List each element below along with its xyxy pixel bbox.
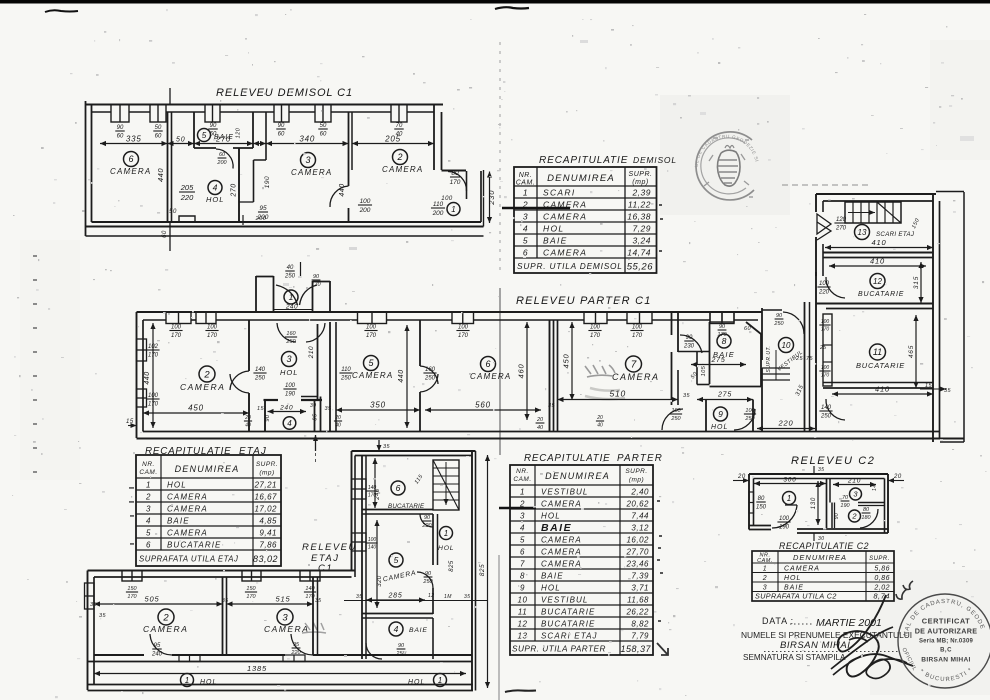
data dotted line [790, 623, 814, 625]
svg-text:90: 90 [776, 313, 783, 319]
svg-text:130: 130 [811, 497, 817, 509]
svg-text:26,22: 26,22 [625, 608, 649, 617]
svg-text:170: 170 [127, 594, 137, 600]
svg-text:315: 315 [913, 276, 920, 289]
svg-text:CAMERA: CAMERA [167, 493, 208, 502]
svg-text:4,85: 4,85 [259, 517, 277, 526]
svg-text:250: 250 [422, 579, 433, 585]
signature check mark upper [896, 589, 907, 599]
svg-text:DEMISOL: DEMISOL [633, 155, 677, 165]
svg-text:3: 3 [282, 612, 288, 623]
parter vestibule 10 left wall [761, 308, 763, 360]
parter room 5 left wall [329, 322, 331, 432]
parter dim 440 vertical partition 5-6 [406, 325, 408, 428]
svg-text:250: 250 [340, 376, 352, 382]
parter vestibule inner door arcs [277, 323, 296, 342]
svg-text:HOL: HOL [206, 195, 224, 204]
svg-text:SCARI ETAJ: SCARI ETAJ [876, 231, 915, 238]
c2 room 2 door arc [860, 509, 878, 528]
svg-text:220: 220 [180, 193, 194, 202]
c2 room 3 circled number [850, 488, 862, 500]
svg-text:1: 1 [763, 566, 767, 573]
demisol wing right wall [466, 171, 468, 199]
parter vestibule dim 240 [274, 309, 312, 311]
table c2 grid [752, 551, 894, 601]
svg-text:SUPR.: SUPR. [869, 556, 890, 562]
svg-text:CAMERA: CAMERA [291, 168, 332, 177]
parter room 9 left door arc [662, 409, 683, 430]
svg-text:35: 35 [818, 467, 825, 473]
svg-text:VESTIBUL: VESTIBUL [541, 488, 588, 497]
svg-text:CAMERA: CAMERA [382, 570, 417, 584]
etaj corridor bottom wall [88, 684, 474, 686]
svg-text:2,39: 2,39 [631, 188, 651, 198]
svg-text:6: 6 [523, 248, 528, 258]
scan artifact: top black bar [0, 0, 990, 4]
demisol room 2 circled number [393, 150, 408, 165]
parter partition door arcs [230, 371, 249, 390]
svg-text:11: 11 [873, 347, 882, 357]
wing left wall below door [815, 237, 817, 276]
svg-text:CAMERA: CAMERA [612, 372, 660, 382]
svg-text:50: 50 [169, 209, 177, 215]
demisol bottom wall notch [179, 216, 195, 222]
svg-text:BAIE: BAIE [784, 585, 804, 592]
svg-text:10: 10 [782, 341, 791, 350]
demisol centerline tick below [169, 222, 171, 251]
demisol wing dimension 230 [489, 172, 491, 224]
svg-text:60: 60 [278, 132, 285, 138]
svg-text:NR.: NR. [142, 461, 155, 468]
svg-text:250: 250 [254, 376, 266, 382]
svg-text:12: 12 [428, 593, 435, 599]
svg-text:450: 450 [562, 354, 571, 369]
svg-text:440: 440 [339, 183, 346, 196]
svg-text:250: 250 [285, 339, 296, 345]
demisol wing door arc [448, 172, 467, 192]
signature lower loop [866, 659, 907, 678]
svg-text:1: 1 [451, 205, 455, 214]
svg-text:3,12: 3,12 [631, 524, 649, 533]
svg-text:5: 5 [523, 236, 528, 246]
parter vestibule entry door leaves [276, 285, 298, 305]
svg-text:VESTIBUL: VESTIBUL [541, 596, 588, 605]
svg-text:270: 270 [835, 226, 847, 232]
c2 room 2 circled number [849, 510, 861, 522]
etaj room 2 circled number [158, 609, 174, 625]
room 11 lower door arc [826, 399, 845, 420]
svg-text:4: 4 [520, 524, 525, 533]
svg-text:16,67: 16,67 [254, 493, 277, 502]
svg-text:(mp): (mp) [629, 477, 644, 484]
c2 right dim 20 [888, 480, 904, 482]
svg-text:2,02: 2,02 [873, 585, 890, 592]
etaj left wall window [85, 583, 95, 609]
svg-text:825: 825 [479, 564, 486, 576]
svg-text:5: 5 [368, 358, 374, 368]
parter room 7 door arc upper right [680, 335, 702, 353]
faint smudge marks [349, 247, 357, 250]
svg-text:BAIE: BAIE [167, 517, 190, 526]
svg-text:35: 35 [548, 403, 556, 409]
etaj room 5 door arc [417, 572, 433, 588]
etaj top arrow to wing [378, 440, 380, 451]
svg-text:440: 440 [144, 371, 151, 384]
svg-text:35: 35 [464, 594, 471, 600]
etaj wing interior left wall [361, 456, 363, 660]
svg-text:17,02: 17,02 [254, 505, 277, 514]
svg-text:20: 20 [893, 474, 902, 480]
svg-text:11: 11 [518, 608, 527, 617]
svg-text:240: 240 [151, 652, 163, 658]
etaj wall rooms 5-4 [362, 613, 433, 615]
svg-text:BUCATARIE: BUCATARIE [541, 620, 596, 629]
svg-text:3,24: 3,24 [632, 236, 651, 246]
svg-text:2,40: 2,40 [630, 488, 649, 497]
wing faint dimension dashes above [782, 184, 868, 186]
svg-text:250: 250 [284, 274, 296, 280]
svg-text:20: 20 [596, 415, 603, 421]
svg-text:510: 510 [609, 389, 626, 399]
svg-text:CAMERA: CAMERA [352, 371, 393, 380]
svg-text:3: 3 [305, 155, 310, 165]
svg-text:1: 1 [523, 188, 528, 198]
svg-text:CAMERA: CAMERA [543, 212, 587, 222]
svg-text:CAMERA: CAMERA [541, 500, 582, 509]
svg-text:100: 100 [360, 198, 371, 205]
svg-text:6: 6 [485, 359, 490, 369]
svg-text:SCARI ETAJ: SCARI ETAJ [541, 632, 598, 641]
wing outer boundary [963, 192, 965, 442]
svg-text:CAMERA: CAMERA [167, 505, 208, 514]
svg-text:2: 2 [145, 493, 151, 502]
demisol top wall inner segments [91, 111, 111, 113]
svg-text:SUPR.: SUPR. [629, 171, 653, 178]
svg-text:PARTER: PARTER [617, 453, 663, 464]
svg-text:410: 410 [872, 238, 887, 247]
svg-text:20: 20 [334, 415, 341, 421]
svg-text:NR.: NR. [516, 468, 529, 475]
svg-text:150: 150 [127, 586, 137, 592]
svg-text:1: 1 [185, 676, 189, 685]
c2 right wall [884, 479, 886, 534]
scan noise speckles [632, 25, 634, 26]
svg-text:270: 270 [215, 135, 231, 144]
dotted line under name [764, 651, 900, 653]
svg-text:100: 100 [366, 325, 377, 331]
demisol alcove walls [253, 160, 255, 202]
svg-text:190: 190 [285, 392, 296, 398]
svg-text:120: 120 [236, 127, 242, 138]
room 13 dim 410 [825, 247, 933, 249]
parter room 7 right wall [671, 312, 673, 335]
wing entrance double door [817, 214, 831, 234]
svg-text:100: 100 [671, 408, 681, 414]
svg-text:23,46: 23,46 [625, 560, 649, 569]
demisol hol right wall [238, 148, 240, 222]
svg-text:HOL: HOL [167, 481, 187, 490]
svg-text:2: 2 [162, 612, 169, 623]
svg-text:200: 200 [257, 214, 269, 221]
svg-text:50: 50 [690, 371, 699, 381]
svg-text:HOL: HOL [408, 679, 425, 686]
svg-text:60: 60 [219, 152, 226, 158]
svg-text:5: 5 [394, 555, 399, 565]
room 11 dim 465 vertical [915, 315, 917, 388]
svg-text:190: 190 [264, 176, 271, 188]
svg-text:8,74: 8,74 [873, 592, 890, 601]
svg-text:2: 2 [851, 512, 857, 521]
parter room 4 top wall left [264, 399, 279, 401]
etaj wing left outer wall [351, 451, 353, 571]
parter room 8 nook [696, 352, 698, 385]
scan artifact: page fold line middle [499, 288, 501, 455]
parter top wall outer [137, 311, 763, 313]
wing left wall room 11 [815, 308, 817, 432]
etaj wing outer dim line 825 [487, 455, 489, 688]
svg-text:240: 240 [285, 304, 298, 311]
svg-text:9: 9 [520, 584, 525, 593]
svg-text:240: 240 [279, 405, 293, 412]
svg-text:3: 3 [146, 505, 151, 514]
svg-text:90: 90 [210, 123, 217, 129]
faint stamp outer arc [696, 132, 754, 200]
signature second stroke [831, 627, 893, 675]
parter bottom wall [137, 437, 965, 439]
etaj room 6 door arc [420, 514, 433, 527]
svg-text:440: 440 [156, 168, 165, 182]
table etaj grid [136, 455, 281, 566]
svg-text:825: 825 [449, 560, 455, 572]
scan artifact: page fold line lower [498, 555, 500, 700]
svg-text:BIRSAN MIHAI: BIRSAN MIHAI [921, 657, 970, 664]
svg-text:270: 270 [231, 183, 238, 197]
svg-text:75: 75 [806, 356, 814, 362]
svg-text:320: 320 [377, 575, 383, 587]
svg-text:3: 3 [763, 585, 767, 592]
svg-text:CAMERA: CAMERA [541, 560, 582, 569]
svg-text:90: 90 [425, 571, 432, 577]
svg-text:70: 70 [396, 123, 403, 129]
room 12 circled number [870, 274, 885, 289]
svg-text:100: 100 [819, 281, 830, 287]
svg-text:4: 4 [287, 419, 292, 428]
svg-text:(mp): (mp) [632, 179, 648, 186]
svg-text:90: 90 [265, 414, 271, 422]
svg-text:3: 3 [520, 512, 525, 521]
demisol top wall windows [111, 105, 129, 123]
svg-text:35: 35 [90, 602, 98, 608]
svg-text:1: 1 [444, 529, 448, 538]
svg-text:7,44: 7,44 [631, 512, 649, 521]
parter dim 220 [757, 428, 815, 430]
svg-text:5: 5 [146, 529, 151, 538]
demisol partition camera3-camera2 [348, 112, 350, 186]
svg-text:1: 1 [438, 676, 442, 685]
etaj stairs box [433, 460, 459, 510]
svg-text:30: 30 [310, 403, 317, 409]
svg-text:110: 110 [433, 201, 444, 208]
demisol wing top wall [442, 170, 467, 172]
svg-text:RECAPITULATIE: RECAPITULATIE [539, 155, 628, 166]
svg-text:35: 35 [325, 406, 333, 412]
svg-text:90: 90 [398, 643, 405, 649]
parter room 7 pencil smudge [585, 388, 625, 399]
parter room 6 dim 560 [425, 409, 541, 411]
svg-text:BAIE: BAIE [409, 627, 428, 634]
svg-text:285: 285 [387, 593, 402, 600]
c2 centerline ticks [813, 466, 815, 474]
etaj room 3 dim 515 [227, 603, 314, 605]
svg-text:BUCATARIE: BUCATARIE [858, 291, 904, 298]
demisol top wall outer [86, 104, 444, 106]
svg-text:300: 300 [783, 477, 796, 484]
room 13 stairs arrow [848, 212, 875, 214]
svg-text:90: 90 [117, 125, 124, 131]
parter left wall window upper [137, 339, 147, 361]
parter top wall inner segments [143, 319, 166, 321]
parter dim row 510 and 275 [558, 399, 679, 401]
svg-text:(mp): (mp) [259, 470, 274, 477]
svg-text:115: 115 [414, 473, 425, 485]
parter left wall window lower [137, 389, 147, 407]
svg-text:CAMERA: CAMERA [143, 624, 188, 634]
parter room 6 circled number [481, 357, 496, 372]
etaj wing left windows [352, 479, 367, 499]
svg-text:90: 90 [834, 513, 840, 520]
svg-text:HOL: HOL [541, 512, 561, 521]
svg-text:170: 170 [246, 594, 256, 600]
svg-text:RELEVEU PARTER C1: RELEVEU PARTER C1 [516, 295, 652, 307]
etaj wing right wall [471, 451, 473, 691]
etaj room 3 circled number [277, 609, 293, 625]
svg-text:7,29: 7,29 [632, 224, 651, 234]
scan artifact: left margin perforation dots [33, 255, 37, 257]
svg-text:12: 12 [518, 620, 528, 629]
scan artifact: bottom dash mark [505, 690, 536, 692]
svg-text:170: 170 [311, 282, 321, 288]
svg-text:16,38: 16,38 [627, 212, 651, 222]
parter partition 5-6 door arcs [420, 366, 438, 384]
wing left wall upper [815, 194, 817, 212]
svg-text:3: 3 [523, 212, 528, 222]
svg-text:14,74: 14,74 [627, 248, 651, 258]
etaj room 4 door arc [366, 643, 382, 659]
demisol partition camera6-hol [167, 112, 169, 222]
svg-text:60: 60 [162, 230, 168, 238]
svg-text:SUPR.: SUPR. [625, 468, 647, 475]
svg-text:170: 170 [305, 594, 315, 600]
svg-text:BUCATARIE: BUCATARIE [167, 541, 222, 550]
svg-text:90: 90 [278, 123, 285, 129]
svg-text:25: 25 [819, 345, 827, 351]
svg-text:350: 350 [370, 401, 386, 410]
c2 room 1 dim 300 [754, 483, 826, 485]
svg-text:3: 3 [853, 490, 858, 499]
room 11 bottom wall [823, 387, 933, 389]
svg-text:200: 200 [216, 160, 227, 166]
svg-text:50: 50 [155, 125, 162, 131]
parter room 8 dim 275 [691, 364, 746, 366]
etaj room 4 circled number [389, 622, 403, 636]
svg-text:2: 2 [203, 369, 210, 380]
svg-text:100: 100 [632, 325, 643, 331]
parter room 7 left wall [557, 320, 559, 432]
svg-text:158,37: 158,37 [620, 644, 651, 654]
svg-text:90: 90 [313, 274, 320, 280]
svg-text:4: 4 [146, 517, 151, 526]
svg-text:5: 5 [520, 536, 525, 545]
parter vestibule right pillar [312, 281, 314, 312]
svg-text:250: 250 [820, 414, 832, 420]
svg-text:8: 8 [722, 336, 727, 346]
svg-text:80: 80 [758, 496, 765, 502]
svg-text:40: 40 [335, 423, 341, 429]
etaj room 3 door arc [291, 634, 313, 655]
parter hol right wall [317, 324, 319, 400]
svg-text:HOL: HOL [541, 584, 561, 593]
svg-text:DENUMIREA: DENUMIREA [793, 553, 847, 562]
c2 bottom wall right segment [797, 528, 888, 530]
table demisol strike-through row 2 [502, 207, 570, 209]
etaj band bottom wall [94, 654, 144, 656]
svg-text:35: 35 [222, 598, 229, 604]
svg-text:210: 210 [847, 478, 861, 485]
svg-text:HOL: HOL [784, 575, 801, 582]
svg-text:SUPRAFATA UTILA C2: SUPRAFATA UTILA C2 [755, 592, 837, 601]
c2 left wall [748, 474, 750, 530]
c2 top wall [749, 473, 888, 475]
svg-text:HOL: HOL [200, 679, 217, 686]
svg-text:6: 6 [396, 483, 401, 493]
svg-text:40: 40 [597, 423, 603, 429]
svg-text:85: 85 [313, 413, 319, 421]
svg-text:CAMERA: CAMERA [110, 167, 151, 176]
etaj room 2 door arc [150, 634, 172, 655]
svg-text:450: 450 [188, 404, 204, 413]
svg-text:SCARI: SCARI [543, 188, 575, 198]
svg-text:CAMERA: CAMERA [543, 248, 587, 258]
svg-text:B,C: B,C [940, 648, 952, 654]
svg-text:170: 170 [821, 327, 830, 333]
svg-text:150: 150 [911, 217, 921, 230]
svg-text:CAM.: CAM. [513, 476, 531, 483]
scan artifact: top-center tick [495, 7, 529, 9]
parter room 4 dim 240 [268, 411, 307, 413]
svg-text:170: 170 [458, 333, 469, 339]
svg-text:100: 100 [207, 325, 218, 331]
svg-text:CAMERA: CAMERA [784, 566, 820, 573]
svg-text:3,71: 3,71 [631, 584, 649, 593]
svg-text:1: 1 [787, 494, 791, 503]
parter vestibule 10 top door [762, 309, 782, 311]
parter vestibule left pillar [255, 276, 257, 312]
svg-text:CAM.: CAM. [139, 469, 157, 476]
svg-text:SUPR. UTILA DEMISOL: SUPR. UTILA DEMISOL [517, 261, 623, 271]
parter room 2 dim 440 vertical [152, 323, 154, 428]
etaj band top wall [88, 570, 356, 572]
c2 room 3 bottom wall [858, 502, 885, 504]
etaj room 2 dim 505 [94, 603, 223, 605]
svg-text:210: 210 [308, 346, 315, 359]
parter room 8 top window [710, 312, 734, 322]
svg-text:560: 560 [475, 401, 491, 410]
svg-text:6: 6 [128, 154, 133, 164]
svg-text:1: 1 [146, 481, 151, 490]
svg-text:220: 220 [818, 290, 830, 296]
parter room 9 walls [705, 400, 707, 432]
svg-text:SUPR.: SUPR. [256, 461, 278, 468]
